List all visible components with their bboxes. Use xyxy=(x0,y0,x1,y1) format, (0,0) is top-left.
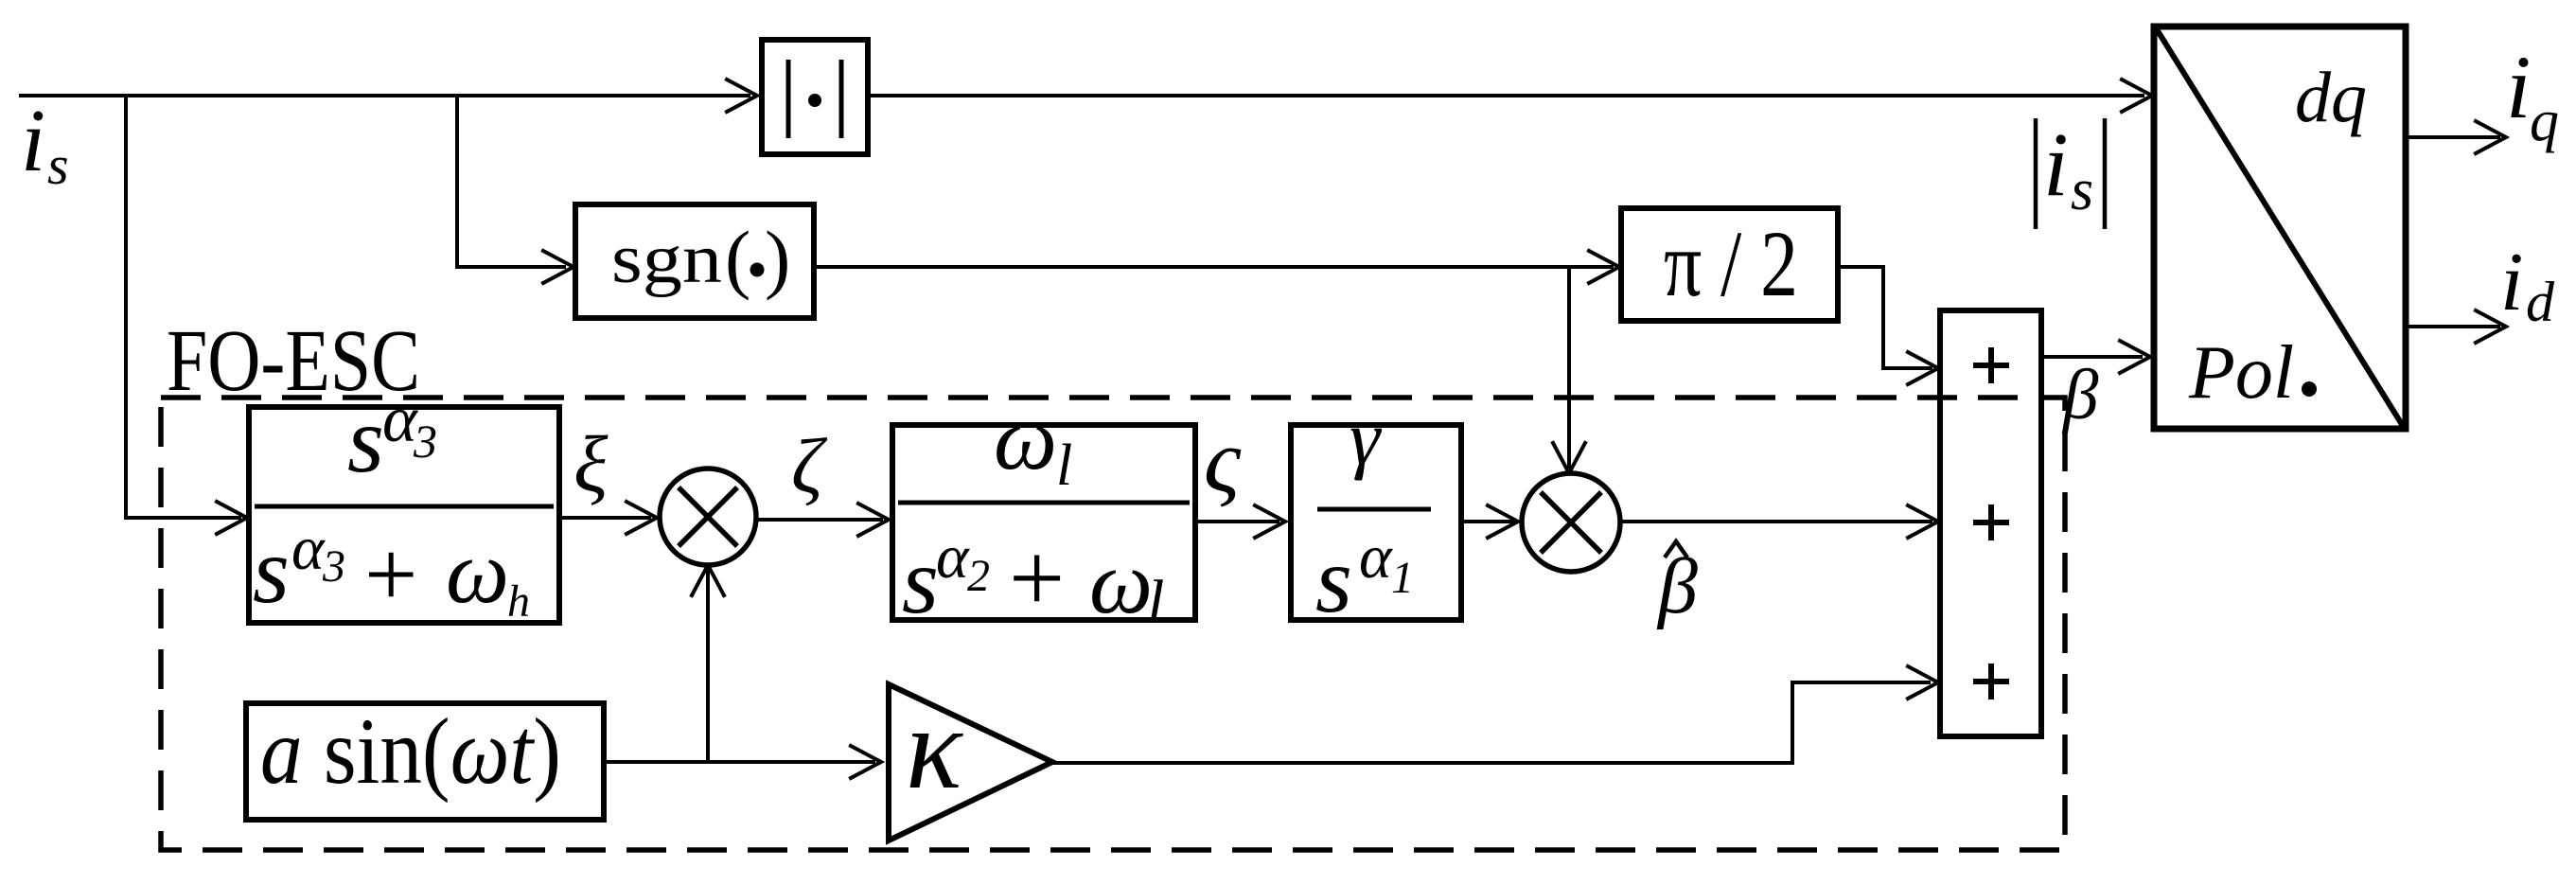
svg-text:β: β xyxy=(1656,542,1698,630)
FO-ESC dashed box xyxy=(161,398,2065,850)
svg-text:2: 2 xyxy=(967,551,990,601)
arrow into pi/2 xyxy=(1589,251,1619,283)
arrow into summer top input xyxy=(1908,352,1938,384)
wire M2 output to summer middle input xyxy=(1620,520,1932,523)
kappa gain triangle xyxy=(889,683,1052,841)
wire main top line from i_s to dq block xyxy=(19,94,750,97)
arrow into kappa xyxy=(851,746,881,778)
svg-text:s: s xyxy=(2071,158,2093,222)
wire branch down to FO-ESC HPF input xyxy=(126,96,241,518)
svg-text:ω: ω xyxy=(994,388,1057,488)
arrow into M1 left xyxy=(626,502,657,534)
sgn block xyxy=(575,204,814,318)
arrow into summer bottom input xyxy=(1908,666,1938,699)
svg-text:Pol: Pol xyxy=(2188,331,2294,415)
svg-text:1: 1 xyxy=(1391,553,1414,603)
wire pi/2 output to summer top input xyxy=(1838,267,1932,368)
svg-text:i: i xyxy=(2500,237,2523,328)
label |i_s| xyxy=(2036,114,2105,229)
svg-text:α: α xyxy=(291,514,326,583)
svg-text:i: i xyxy=(2506,37,2531,137)
svg-text:π / 2: π / 2 xyxy=(1664,211,1798,316)
svg-text:s: s xyxy=(47,134,69,196)
svg-text:ς: ς xyxy=(1204,410,1242,511)
svg-text:3: 3 xyxy=(413,415,437,468)
wire dq output i_d xyxy=(2406,325,2500,328)
multiplier M2 xyxy=(1522,473,1620,572)
wire summer output to Pol input xyxy=(2041,355,2143,359)
svg-text:β: β xyxy=(2061,356,2099,434)
label beta-hat xyxy=(1656,541,1698,630)
svg-text:sgn: sgn xyxy=(611,221,722,298)
svg-text:γ: γ xyxy=(1350,395,1383,481)
svg-text:s: s xyxy=(902,528,939,633)
svg-text:s: s xyxy=(347,387,384,492)
summer block with three plus inputs xyxy=(1940,310,2041,736)
arrow into M2 left xyxy=(1488,505,1518,538)
svg-text:ω: ω xyxy=(446,522,509,622)
svg-text:i: i xyxy=(21,92,45,190)
arrow into HPF xyxy=(217,502,247,534)
svg-text:3: 3 xyxy=(322,541,345,592)
arrow up into M1 bottom xyxy=(692,565,724,595)
dq / Pol transform block xyxy=(2154,27,2406,429)
svg-text:): ) xyxy=(765,215,790,301)
a sin(wt) block xyxy=(246,699,604,820)
HPF block s^a3/(s^a3+wh) xyxy=(249,383,559,627)
arrow down into M2 top xyxy=(1553,443,1585,473)
wire branch down from sgn line into multiplier M2 xyxy=(1567,267,1571,469)
svg-text:l: l xyxy=(1147,568,1164,637)
svg-text:i: i xyxy=(2043,114,2069,215)
arrowheads (open V style) xyxy=(217,80,2506,778)
svg-text:+: + xyxy=(1009,522,1065,633)
arrow into abs block xyxy=(727,80,757,112)
wire M1 output to LPF input xyxy=(756,518,883,522)
wire branch down to sgn block xyxy=(457,96,566,267)
svg-text:q: q xyxy=(2530,89,2559,153)
svg-text:dq: dq xyxy=(2295,58,2367,137)
wire a sin(wt) output with branch up to M1 and on to kappa xyxy=(604,760,875,764)
wire gamma block to multiplier M2 xyxy=(1461,520,1514,523)
svg-text:α: α xyxy=(1359,522,1393,592)
svg-text:(: ( xyxy=(725,215,750,301)
svg-text:ξ: ξ xyxy=(573,420,609,509)
arrow into LPF xyxy=(858,504,889,536)
pi/2 block xyxy=(1621,208,1838,321)
arrow on i_q output xyxy=(2476,121,2506,153)
label i_s input xyxy=(21,92,69,196)
svg-text:h: h xyxy=(507,576,530,627)
wire LPF output to gamma block xyxy=(1195,520,1279,523)
label i_q xyxy=(2506,37,2559,153)
svg-text:d: d xyxy=(2526,271,2555,333)
arrow into gamma block xyxy=(1255,505,1285,538)
wire HPF output to multiplier M1 xyxy=(559,516,651,520)
arrow into Pol input xyxy=(2120,341,2150,373)
svg-text:s: s xyxy=(1315,527,1352,632)
multiplier M1 xyxy=(660,469,756,565)
svg-text:s: s xyxy=(253,518,290,623)
svg-text:ζ: ζ xyxy=(791,422,828,509)
abs block |.| xyxy=(762,40,868,154)
arrow into summer middle input xyxy=(1908,505,1938,538)
wire sgn output to pi/2 block xyxy=(814,265,1614,269)
arrow into dq block top xyxy=(2122,80,2152,112)
label i_d xyxy=(2500,237,2555,333)
svg-text:κ: κ xyxy=(906,683,963,813)
LPF block wl/(s^a2+wl) xyxy=(892,388,1195,637)
arrow into sgn xyxy=(543,251,573,283)
gamma block g/s^a1 xyxy=(1291,395,1461,632)
svg-text:+: + xyxy=(364,522,417,627)
svg-text:l: l xyxy=(1056,434,1072,498)
svg-text:ω: ω xyxy=(1089,532,1153,632)
svg-text:α: α xyxy=(936,522,970,592)
svg-text:a sin(ωt): a sin(ωt) xyxy=(260,699,561,804)
wire dq output i_q xyxy=(2406,135,2500,139)
arrow on i_d output xyxy=(2476,310,2506,343)
wire kappa output up to summer bottom input xyxy=(1052,682,1931,763)
